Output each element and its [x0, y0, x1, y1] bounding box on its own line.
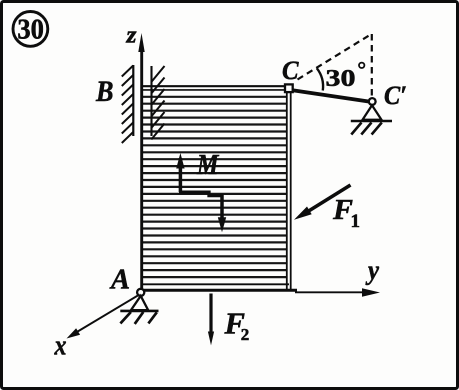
wall line at B [132, 65, 134, 136]
svg-text:30: 30 [17, 14, 44, 45]
pin at C' [369, 98, 376, 105]
ground hatching at C' [351, 123, 382, 135]
z axis [138, 33, 144, 292]
svg-text:2: 2 [241, 325, 250, 344]
plate fixed-edge hatching near B [151, 66, 164, 140]
svg-text:M: M [196, 149, 219, 181]
support triangle at A [131, 296, 148, 310]
pin at A [137, 289, 144, 296]
svg-text:1: 1 [351, 211, 361, 232]
problem number circle 30 [13, 12, 48, 47]
ground line at C' [351, 120, 392, 122]
svg-text:C: C [282, 56, 299, 85]
ground line at A [120, 310, 158, 313]
rod C to C' [293, 90, 373, 102]
plate top edge (double line) [141, 86, 288, 90]
angle arc at C [317, 68, 323, 90]
y axis [295, 288, 380, 297]
force F1 arrow [294, 185, 351, 220]
plate bottom edge [140, 284, 297, 290]
plate fixed-edge line near B [150, 66, 152, 136]
svg-text:30: 30 [326, 66, 356, 92]
moment M couple arrow [176, 153, 226, 232]
dashed vertical construction line [371, 34, 373, 96]
svg-text:A: A [109, 265, 130, 296]
label F1 [332, 195, 360, 232]
corner node C (square) [285, 84, 293, 92]
svg-text:y: y [365, 255, 380, 285]
svg-text:x: x [54, 330, 67, 361]
svg-text:C′: C′ [384, 81, 407, 110]
svg-text:z: z [125, 23, 137, 49]
support triangle at C' [363, 105, 382, 120]
ground hatching at A [120, 312, 156, 324]
label F2 [224, 306, 250, 345]
x axis [67, 295, 140, 339]
force F2 arrow [208, 294, 214, 346]
wall hatching at B [122, 66, 133, 144]
dashed construction line from C [298, 36, 369, 80]
plate interior hatch lines [143, 97, 287, 277]
plate right edge (double line) [287, 86, 291, 291]
angle label 30deg [326, 63, 365, 92]
svg-text:B: B [95, 75, 113, 108]
